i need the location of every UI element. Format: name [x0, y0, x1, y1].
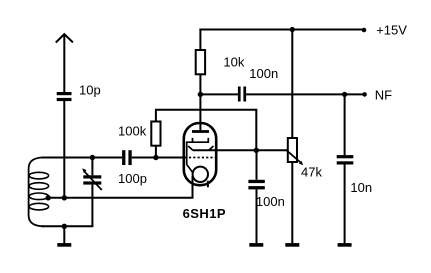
wire coupling cap to NF — [246, 93, 365, 95]
svg-text:10p: 10p — [79, 83, 101, 98]
node tank bottom ground junction — [62, 224, 67, 229]
wire 10n top lead — [344, 94, 346, 155]
wire tank top — [42, 157, 122, 159]
ground (100n screen) — [249, 243, 263, 247]
capacitor 100n screen — [248, 180, 264, 190]
svg-text:NF: NF — [375, 87, 392, 102]
ground (pot) — [285, 243, 299, 247]
svg-text:100p: 100p — [118, 171, 147, 186]
wire screen node to pot wiper — [193, 149, 288, 151]
node anode junction — [198, 92, 203, 97]
tube anode plate — [192, 130, 209, 133]
resistor 100k — [151, 122, 160, 146]
tube screen grid g2 — [187, 138, 209, 173]
ground (10n) — [338, 243, 352, 247]
tube control grid g1 (dashed) — [185, 157, 216, 159]
svg-text:100n: 100n — [249, 66, 278, 81]
svg-text:10k: 10k — [223, 54, 244, 69]
wire 100k top to screen node — [156, 110, 256, 151]
wire 10n to ground — [344, 165, 346, 244]
wire screen node down to 100n — [256, 150, 258, 180]
svg-text:100n: 100n — [256, 194, 285, 209]
node grid / 100k junction — [153, 155, 158, 160]
tube cathode loop — [193, 167, 208, 182]
svg-text:10n: 10n — [350, 180, 372, 195]
wire 100k bottom lead — [155, 146, 157, 158]
node antenna-tap junction — [62, 195, 67, 200]
wire anode lead through resistor node — [199, 74, 201, 130]
capacitor 100n coupling — [238, 87, 246, 102]
wire tank bottom — [42, 225, 93, 227]
node pot branch on +15V rail — [290, 27, 295, 32]
variable capacitor — [82, 157, 102, 227]
wire 100n screen to ground — [256, 189, 258, 243]
wire pot bottom to ground — [291, 162, 293, 243]
wire ground stem coil — [63, 226, 65, 243]
wire grid line — [132, 157, 185, 159]
resistor 10k — [196, 50, 205, 74]
terminal NF — [362, 92, 367, 97]
wire pot top lead — [291, 30, 293, 139]
svg-text:100k: 100k — [118, 123, 147, 138]
node tank-top / varcap junction — [90, 155, 95, 160]
potentiometer 47k — [287, 138, 304, 165]
capacitor 10n — [337, 155, 354, 164]
tube cathode right stub — [207, 181, 209, 188]
svg-text:47k: 47k — [301, 165, 322, 180]
node screen junction — [254, 148, 259, 153]
svg-text:+15V: +15V — [376, 22, 407, 37]
svg-text:6SH1P: 6SH1P — [183, 206, 226, 221]
wire anode to coupling cap — [200, 93, 238, 95]
terminal +15V — [362, 28, 367, 33]
ground (tank) — [57, 243, 71, 247]
wire tap to cathode — [48, 197, 194, 199]
tube 6SH1P envelope — [184, 123, 216, 185]
wire cathode lead — [192, 176, 194, 198]
capacitor 10p — [57, 92, 72, 101]
antenna — [56, 34, 73, 92]
node 10n branch — [342, 92, 347, 97]
tube suppressor g3 — [188, 146, 213, 150]
wire 10k top lead — [199, 29, 201, 51]
coil L — [29, 157, 49, 226]
capacitor 100p — [122, 150, 132, 165]
node coil tap — [46, 195, 51, 200]
wire antenna to tap — [63, 101, 65, 198]
wire +15V rail — [199, 29, 364, 31]
